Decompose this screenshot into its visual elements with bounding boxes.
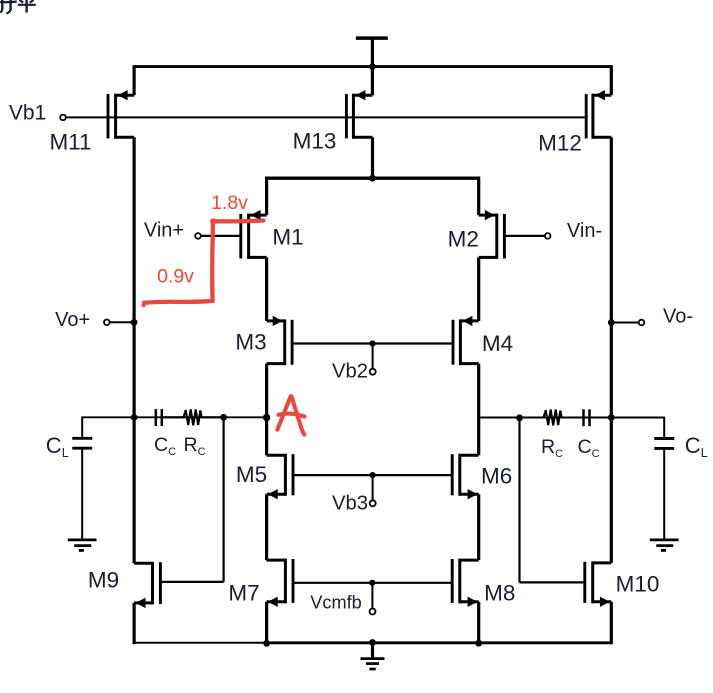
capacitor Cc left [156, 409, 162, 426]
label Vin+ [144, 220, 184, 242]
wire tail line [267, 176, 479, 179]
svg-text:Vcmfb: Vcmfb [310, 592, 362, 612]
terminal Vcmfb [370, 609, 376, 615]
wire M8 source to rail [477, 602, 480, 643]
capacitor Cc right [584, 409, 590, 426]
label M13 [293, 129, 337, 154]
wire top VDD rail [134, 65, 611, 68]
label Vo+ [55, 309, 90, 331]
svg-text:Vo+: Vo+ [55, 309, 90, 331]
node Vb2 junction [370, 340, 376, 346]
terminal Vb3 [370, 500, 376, 506]
label Rc left [184, 434, 206, 458]
label M3 [235, 330, 266, 355]
wire tail right corner down [477, 177, 480, 216]
transistor M12 [586, 90, 611, 139]
annotation red 0.9v [157, 266, 194, 288]
label Vin- [567, 220, 602, 242]
wire node A right line [479, 417, 665, 419]
wire Vcmfb stub [371, 583, 373, 609]
node A compensation junction [220, 414, 227, 421]
transistor M7 [267, 559, 293, 607]
wire Vb3 gate line [293, 474, 452, 476]
wire Vo+ stub [110, 321, 135, 323]
label M7 [228, 580, 259, 605]
label M4 [482, 331, 513, 356]
svg-text:CL: CL [685, 433, 708, 460]
node A inner junction [263, 414, 270, 421]
transistor M6 [452, 454, 479, 500]
svg-text:M8: M8 [484, 580, 515, 605]
wire M13 source to rail [371, 67, 374, 96]
label M8 [484, 580, 515, 605]
label CL left [46, 433, 69, 460]
svg-text:M9: M9 [88, 567, 119, 592]
wire M1 drain to M3 [265, 257, 268, 321]
wire Vb1 bias line [66, 116, 586, 118]
wire M7 source to rail [265, 602, 268, 643]
svg-text:Vb1: Vb1 [9, 102, 46, 125]
wire Vb2 stub [372, 344, 374, 369]
wire M4 source to M6 drain [477, 364, 480, 456]
wire right rail upper segment [610, 65, 613, 95]
wire M3 source to M5 drain [265, 364, 268, 456]
wire right CL corner [663, 417, 665, 438]
wire left rail main segment [133, 137, 136, 563]
label Vb1 [9, 102, 46, 125]
svg-text:M3: M3 [235, 330, 266, 355]
node Vb3 junction [370, 472, 376, 478]
annotation red 1.8v [211, 192, 248, 214]
label M12 [538, 131, 582, 156]
wire M13 drain to tail [371, 137, 374, 178]
transistor M1 [241, 210, 267, 259]
wire left rail lower segment [133, 603, 136, 644]
node tail junction [369, 175, 376, 182]
wire tail left corner down [265, 177, 268, 216]
terminal Vin+ [195, 233, 201, 239]
node A right compensation junction [516, 414, 523, 421]
svg-text:RC: RC [184, 434, 206, 458]
wire left rail upper segment [133, 65, 136, 95]
svg-text:M4: M4 [482, 331, 513, 356]
label Vb2 [332, 361, 368, 383]
wire right rail main segment [610, 137, 613, 563]
label M10 [616, 571, 660, 596]
svg-text:M13: M13 [293, 129, 337, 154]
wire node A left line [82, 416, 266, 418]
transistor M8 [452, 559, 479, 607]
svg-text:Vo-: Vo- [663, 305, 693, 327]
node bottom rail M7 junction [263, 640, 270, 647]
label M1 [272, 225, 303, 250]
wire M6 source to M8 drain [477, 494, 480, 560]
node top rail junction [369, 63, 376, 70]
wire M10 gate line [520, 581, 585, 583]
svg-text:M2: M2 [448, 226, 479, 251]
ground main [361, 643, 385, 670]
node A left rail junction [131, 414, 138, 421]
svg-text:M10: M10 [616, 571, 660, 596]
label M2 [448, 226, 479, 251]
terminal Vo- [639, 320, 645, 326]
svg-text:CC: CC [154, 434, 176, 458]
svg-text:0.9v: 0.9v [157, 266, 194, 288]
label Rc right [541, 436, 563, 460]
svg-text:Vin-: Vin- [567, 220, 602, 242]
node bottom rail M8 junction [475, 640, 482, 647]
VDD supply symbol [356, 38, 388, 67]
label M9 [88, 567, 119, 592]
svg-text:Vin+: Vin+ [144, 220, 184, 242]
capacitor CL left [72, 438, 92, 538]
label M11 [49, 129, 91, 154]
transistor M13 [346, 90, 372, 139]
wire bottom rail main [267, 641, 612, 644]
svg-text:M11: M11 [49, 129, 91, 154]
wire bottom rail thin left [134, 642, 267, 644]
clipped chinese caption text [0, 0, 36, 13]
wire Vo- stub [611, 322, 638, 324]
wire M2 drain to M4 [477, 257, 480, 321]
svg-text:M6: M6 [481, 464, 512, 489]
wire right rail lower segment [610, 602, 613, 644]
svg-text:Vb2: Vb2 [332, 361, 368, 383]
wire Vin- gate wire [504, 235, 545, 237]
svg-text:M12: M12 [538, 131, 582, 156]
label Vcmfb [310, 592, 362, 612]
label M6 [481, 464, 512, 489]
node Vcmfb junction [369, 580, 375, 586]
terminal Vb1 [60, 115, 66, 121]
wire Vin+ gate wire [201, 235, 241, 237]
label CL right [685, 433, 708, 460]
wire M9 gate vertical [223, 417, 225, 582]
transistor M10 [585, 561, 612, 607]
svg-text:1.8v: 1.8v [211, 192, 248, 214]
node A right rail junction [608, 414, 615, 421]
transistor M2 [479, 210, 505, 259]
capacitor CL right [654, 439, 674, 539]
terminal Vo+ [104, 320, 110, 326]
svg-text:CL: CL [46, 433, 69, 460]
wire Vb2 gate line [292, 342, 453, 344]
ground right CL [650, 540, 679, 551]
wire M9 gate line [160, 581, 223, 583]
svg-text:M5: M5 [236, 462, 267, 487]
resistor Rc right [520, 410, 584, 426]
transistor M11 [108, 90, 134, 139]
label Cc left [154, 434, 176, 458]
label node A (red handwritten) [277, 396, 304, 434]
transistor M4 [453, 316, 479, 365]
wire M5 source to M7 drain [265, 494, 268, 560]
terminal Vb2 [370, 369, 376, 375]
svg-text:RC: RC [541, 436, 563, 460]
wire M10 gate vertical [518, 418, 520, 583]
label Vb3 [332, 493, 368, 515]
node Vo- junction [608, 319, 615, 326]
ground left CL [68, 540, 97, 551]
node Vo+ junction [131, 319, 138, 326]
wire Vcmfb gate line [293, 582, 452, 584]
svg-text:CC: CC [578, 436, 600, 460]
annotation red step waveform [144, 218, 264, 305]
node bottom rail ground junction [369, 639, 376, 646]
label Cc right [578, 436, 600, 460]
terminal Vin- [545, 233, 551, 239]
transistor M9 [134, 562, 160, 608]
label M5 [236, 462, 267, 487]
svg-text:M7: M7 [228, 580, 259, 605]
svg-text:M1: M1 [272, 225, 303, 250]
wire left CL corner [81, 416, 83, 437]
transistor M3 [267, 316, 293, 365]
svg-text:Vb3: Vb3 [332, 493, 368, 515]
resistor Rc left [163, 409, 223, 425]
transistor M5 [267, 454, 293, 500]
label Vo- [663, 305, 693, 327]
wire Vb3 stub [372, 475, 374, 500]
